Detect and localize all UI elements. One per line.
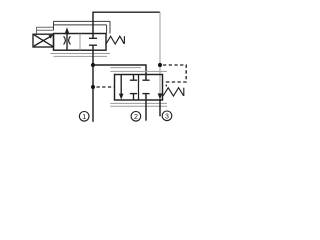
throttle orifice curves (64, 36, 66, 44)
junction node C (158, 63, 162, 67)
solenoid arrowhead (49, 35, 54, 39)
infinite positioning lines under main valve (110, 103, 167, 106)
wire: main valve to port 3 (159, 99, 161, 116)
port 3 label (162, 111, 172, 121)
svg-text:2: 2 (134, 114, 138, 121)
main valve right cell through-flow arrow (158, 93, 163, 99)
main valve body U2 (115, 75, 163, 101)
main valve left cell blocked port bottom (130, 93, 137, 95)
infinite positioning lines under pilot valve body (51, 54, 111, 57)
throttle arrow (pilot valve flow path) (66, 33, 68, 51)
wire: pilot valve bottom port down to port 1 (92, 45, 94, 122)
infinite positioning lines over main valve (110, 68, 167, 72)
main valve right cell blocked port top (142, 79, 149, 81)
blocked port bottom (pilot valve) (89, 44, 97, 46)
wire: right vertical down (thin) (159, 12, 161, 93)
svg-text:3: 3 (165, 113, 169, 120)
main valve right cell blocked port bottom (142, 93, 149, 95)
pilot valve body U1 (54, 34, 107, 51)
main valve cell divider (138, 75, 140, 101)
wire: pilot valve top port up and over (93, 12, 160, 38)
junction node A (91, 63, 95, 67)
port 2 label (131, 112, 141, 122)
port 1 label (79, 112, 89, 122)
main valve left cell flow arrow (120, 75, 122, 95)
blocked port top (pilot valve) (89, 37, 97, 39)
svg-text:1: 1 (82, 114, 86, 121)
spring (main valve) (163, 88, 184, 96)
main valve left cell blocked port top (133, 75, 135, 81)
infinite positioning lines over pilot valve body (54, 21, 111, 33)
pilot line (dashed) to main valve spring side (163, 65, 186, 86)
infinite positioning lines over solenoid (37, 27, 54, 34)
junction node B (91, 85, 95, 89)
pilot line (dashed) to main valve left side (97, 86, 115, 88)
wire: junction to main valve top port (93, 65, 146, 80)
proportional solenoid S1 (33, 34, 54, 47)
spring (pilot valve) (106, 36, 124, 44)
pilot valve cell divider (79, 34, 81, 51)
